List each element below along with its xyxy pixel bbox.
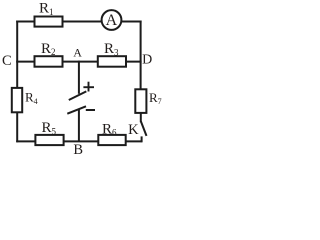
svg-text:R4: R4 bbox=[25, 90, 38, 106]
svg-text:D: D bbox=[142, 53, 152, 68]
switch K fixed post on bottom wire bbox=[141, 136, 143, 142]
svg-text:A: A bbox=[106, 12, 118, 29]
wire: battery branch lower (battery down to node B) bbox=[78, 109, 80, 142]
label R4 bbox=[25, 90, 38, 106]
svg-text:R1: R1 bbox=[39, 1, 54, 17]
svg-text:R3: R3 bbox=[104, 41, 119, 57]
label R6 bbox=[102, 121, 117, 137]
label R7 bbox=[149, 90, 162, 106]
wire: top side with R1 and ammeter bbox=[16, 21, 141, 23]
svg-text:R2: R2 bbox=[41, 41, 56, 57]
node D label bbox=[142, 53, 152, 68]
battery top plate (positive) bbox=[69, 91, 87, 100]
svg-text:R7: R7 bbox=[149, 90, 162, 106]
switch label K bbox=[128, 122, 139, 138]
label R5 bbox=[42, 120, 57, 136]
resistor R2 (box on middle row) bbox=[35, 56, 63, 66]
node C label bbox=[2, 53, 12, 69]
svg-text:K: K bbox=[128, 122, 139, 138]
resistor R5 (box on bottom wire) bbox=[35, 135, 63, 145]
svg-text:R6: R6 bbox=[102, 121, 117, 137]
label R1 bbox=[39, 1, 54, 17]
node A label bbox=[73, 45, 82, 59]
label R2 bbox=[41, 41, 56, 57]
wire: right frame upper (to D and R7) bbox=[140, 21, 142, 91]
svg-text:A: A bbox=[73, 45, 82, 59]
ammeter A (circle on top wire) bbox=[102, 10, 122, 30]
battery bottom plate (negative) bbox=[67, 106, 86, 113]
resistor R1 (box on top wire) bbox=[35, 17, 63, 27]
svg-text:C: C bbox=[2, 53, 12, 69]
battery minus sign bbox=[86, 109, 95, 111]
wire: battery branch upper (node A down to battery) bbox=[78, 61, 80, 94]
wire: middle row C to D through R2, node A, R3 bbox=[16, 61, 141, 63]
resistor R6 (box on bottom wire) bbox=[98, 135, 125, 145]
resistor R3 (box on middle row) bbox=[98, 56, 126, 66]
wire: left frame (C branch, through R4) bbox=[16, 21, 18, 143]
battery plus sign bbox=[83, 82, 94, 92]
switch K blade (open) bbox=[141, 121, 147, 135]
wire: R7 bottom to switch pivot bbox=[140, 113, 142, 123]
wire: bottom side through R5, node B, R6 bbox=[16, 140, 142, 142]
resistor R7 (vertical box on right frame) bbox=[135, 89, 146, 113]
resistor R4 (vertical box on left frame) bbox=[12, 88, 22, 112]
node B label bbox=[73, 142, 83, 158]
svg-text:R5: R5 bbox=[42, 120, 57, 136]
svg-text:B: B bbox=[73, 142, 83, 158]
label R3 bbox=[104, 41, 119, 57]
